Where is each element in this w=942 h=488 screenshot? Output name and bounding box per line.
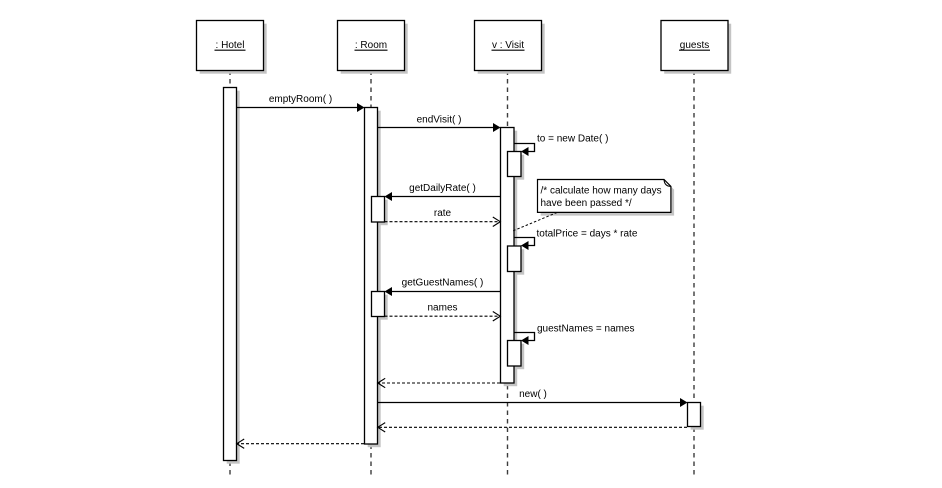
svg-text:have been passed */: have been passed */ (541, 198, 632, 209)
svg-text:: Room: : Room (355, 40, 387, 51)
svg-text:rate: rate (434, 208, 452, 219)
svg-text:getDailyRate( ): getDailyRate( ) (409, 183, 476, 194)
svg-text:guests: guests (680, 40, 709, 51)
svg-text:names: names (427, 303, 457, 314)
svg-text:new( ): new( ) (519, 389, 547, 400)
svg-text:getGuestNames( ): getGuestNames( ) (402, 278, 484, 289)
svg-text:: Hotel: : Hotel (216, 40, 245, 51)
svg-text:endVisit( ): endVisit( ) (417, 115, 462, 126)
svg-text:/* calculate how many days: /* calculate how many days (541, 186, 662, 197)
svg-text:v : Visit: v : Visit (492, 40, 524, 51)
svg-text:totalPrice = days * rate: totalPrice = days * rate (537, 229, 638, 240)
svg-text:guestNames = names: guestNames = names (537, 324, 635, 335)
svg-text:emptyRoom( ): emptyRoom( ) (269, 94, 332, 105)
svg-text:to = new Date( ): to = new Date( ) (537, 134, 608, 145)
